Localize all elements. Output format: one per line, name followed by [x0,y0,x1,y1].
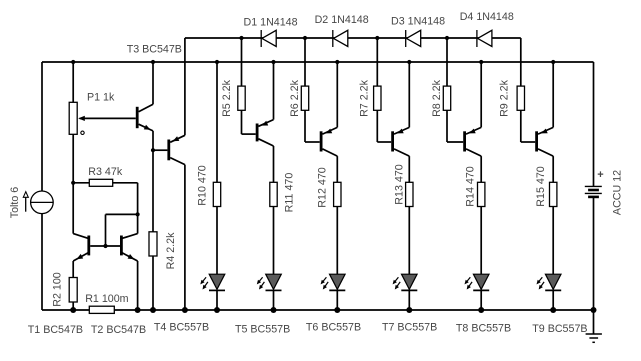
svg-text:T5 BC557B: T5 BC557B [235,324,290,336]
svg-text:R14 470: R14 470 [465,166,477,206]
svg-text:T8 BC557B: T8 BC557B [456,322,511,334]
svg-text:R7 2.2k: R7 2.2k [359,79,371,116]
svg-text:R4 2.2k: R4 2.2k [165,232,177,269]
svg-text:T2 BC547B: T2 BC547B [91,324,146,336]
svg-text:R11 470: R11 470 [283,173,295,213]
svg-text:D2 1N4148: D2 1N4148 [315,14,369,26]
svg-text:R3 47k: R3 47k [88,166,123,178]
svg-text:D4 1N4148: D4 1N4148 [460,11,514,23]
svg-text:T7 BC557B: T7 BC557B [382,321,437,333]
svg-text:R2 100: R2 100 [52,272,64,307]
svg-text:+: + [597,169,603,181]
svg-text:R15 470: R15 470 [535,166,547,206]
svg-text:T6 BC557B: T6 BC557B [306,321,361,333]
svg-text:D1 1N4148: D1 1N4148 [244,16,298,28]
svg-text:R1 100m: R1 100m [85,293,128,305]
svg-text:T3 BC547B: T3 BC547B [127,44,182,56]
svg-text:R5 2.2k: R5 2.2k [221,79,233,116]
svg-text:R6 2.2k: R6 2.2k [289,79,301,116]
svg-text:P1 1k: P1 1k [87,92,115,104]
svg-text:Tolto 6: Tolto 6 [9,187,21,219]
svg-text:R9 2.2k: R9 2.2k [499,79,511,116]
svg-text:R8 2.2k: R8 2.2k [431,79,443,116]
svg-text:T1 BC547B: T1 BC547B [28,324,83,336]
svg-text:R12 470: R12 470 [316,167,328,207]
svg-text:T4 BC557B: T4 BC557B [154,322,209,334]
svg-text:R10 470: R10 470 [197,165,209,205]
svg-text:T9 BC557B: T9 BC557B [532,323,587,335]
svg-text:D3 1N4148: D3 1N4148 [391,16,445,28]
svg-text:R13 470: R13 470 [394,164,406,204]
svg-text:ACCU 12: ACCU 12 [611,170,623,215]
